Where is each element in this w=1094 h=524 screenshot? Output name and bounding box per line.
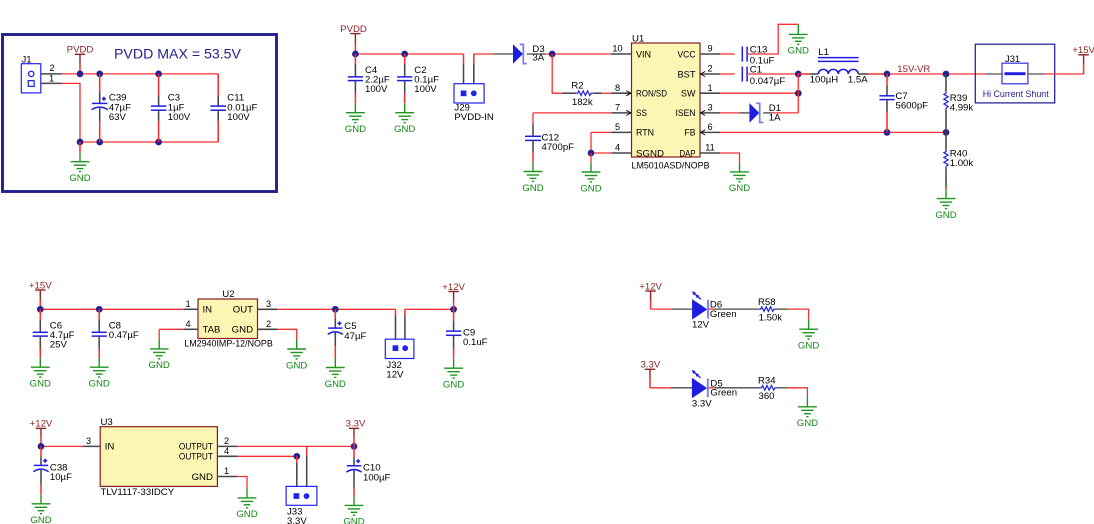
ground xyxy=(345,496,364,515)
inductor L1 xyxy=(798,58,887,74)
junction xyxy=(155,139,162,146)
wire D5 cathode xyxy=(709,387,715,389)
svg-text:LM2940IMP-12/NOPB: LM2940IMP-12/NOPB xyxy=(184,338,272,349)
wire BST to C1 xyxy=(720,73,735,75)
svg-text:PVDD: PVDD xyxy=(340,24,367,35)
svg-text:+12V: +12V xyxy=(639,281,662,292)
svg-text:GND: GND xyxy=(580,183,601,194)
svg-text:3.3V: 3.3V xyxy=(641,360,661,371)
ground (VCC decoupling) xyxy=(797,23,799,26)
power flag +15V (U2 input) xyxy=(29,280,52,309)
svg-text:3.3V: 3.3V xyxy=(692,398,712,409)
svg-text:3: 3 xyxy=(707,103,712,113)
svg-text:Green: Green xyxy=(710,309,737,320)
ground xyxy=(326,358,345,377)
svg-text:PVDD: PVDD xyxy=(67,45,94,56)
svg-text:47µF: 47µF xyxy=(344,331,366,342)
svg-text:GND: GND xyxy=(236,509,257,520)
junction xyxy=(155,71,162,78)
junction xyxy=(549,51,556,58)
ground xyxy=(937,189,956,208)
wire +12V rail right xyxy=(405,308,454,310)
pin 8 RON/SD of U1 xyxy=(612,92,632,94)
pin 2 BST of U1 xyxy=(700,73,720,75)
junction xyxy=(943,71,950,78)
wire J1 pin1 to ground rail xyxy=(62,83,80,142)
svg-text:U1: U1 xyxy=(632,33,644,44)
svg-text:4700pF: 4700pF xyxy=(542,142,575,153)
wire SS net xyxy=(533,112,612,114)
pin 1 IN of U2 xyxy=(184,308,199,310)
svg-text:GND: GND xyxy=(192,472,213,483)
wire U2 GND pin to ground xyxy=(277,329,297,339)
resistor R34 xyxy=(760,386,776,391)
junction xyxy=(77,71,84,78)
svg-text:360: 360 xyxy=(759,391,775,402)
pin 4 OUTPUT of U3 xyxy=(217,455,237,457)
svg-text:GND: GND xyxy=(788,46,809,57)
ground xyxy=(90,358,109,377)
wire +12V to U3 xyxy=(41,445,84,447)
wire 3.3V to D5 xyxy=(650,387,671,389)
svg-text:SGND: SGND xyxy=(636,148,664,159)
svg-text:100V: 100V xyxy=(227,112,250,123)
svg-text:1: 1 xyxy=(224,466,229,476)
voltage regulator U3 TLV1117 body xyxy=(100,427,217,487)
svg-text:GND: GND xyxy=(522,183,543,194)
pin 2 of J1 xyxy=(41,73,62,75)
junction xyxy=(96,71,103,78)
wire FB net xyxy=(720,131,946,133)
wire ISEN xyxy=(720,112,739,114)
pin 1 of J1 xyxy=(41,82,62,84)
svg-text:100V: 100V xyxy=(168,112,191,123)
wire D1 to SW node xyxy=(772,112,798,114)
LED D5 xyxy=(692,370,708,398)
diode D1 xyxy=(749,103,763,123)
svg-text:4.99k: 4.99k xyxy=(950,103,974,114)
wire to R34 xyxy=(714,387,760,389)
LED D6 xyxy=(692,291,708,319)
svg-text:GND: GND xyxy=(345,124,366,135)
svg-text:PVDD MAX = 53.5V: PVDD MAX = 53.5V xyxy=(114,47,242,63)
wire D3 anode lead xyxy=(493,53,513,55)
svg-text:SW: SW xyxy=(681,89,696,100)
pin 6 FB of U1 xyxy=(700,131,720,133)
diode D3 xyxy=(513,44,527,64)
svg-text:GND: GND xyxy=(69,173,90,184)
connector J31 Hi Current Shunt xyxy=(975,44,1054,103)
wire to R58 xyxy=(715,308,760,310)
junction xyxy=(37,306,44,313)
connector J1 xyxy=(21,64,41,93)
svg-text:5: 5 xyxy=(615,122,620,132)
ground xyxy=(71,152,90,171)
svg-text:4: 4 xyxy=(615,143,620,153)
svg-text:TLV1117-33IDCY: TLV1117-33IDCY xyxy=(101,487,175,498)
wire SW xyxy=(720,92,798,94)
wire D3 to VIN xyxy=(546,53,612,55)
wire DAP to ground xyxy=(720,153,740,163)
svg-text:SS: SS xyxy=(636,108,647,119)
svg-text:GND: GND xyxy=(149,360,170,371)
pin 4 SGND of U1 xyxy=(612,152,632,154)
svg-text:1: 1 xyxy=(185,299,190,309)
wire 15V-VR rail xyxy=(887,73,986,75)
op-amp U1 LM5010 regulator body xyxy=(632,43,701,157)
junction xyxy=(38,443,45,450)
wire D6 anode lead xyxy=(671,308,692,310)
pin 11 DAP of U1 xyxy=(700,152,720,154)
wire RTN net xyxy=(591,131,612,133)
svg-text:1: 1 xyxy=(49,74,54,84)
wire D1 anode lead xyxy=(739,112,749,114)
svg-text:+15V: +15V xyxy=(29,280,52,291)
svg-text:TAB: TAB xyxy=(203,325,221,336)
power flag PVDD (regulator) xyxy=(340,24,367,54)
svg-text:9: 9 xyxy=(707,44,712,54)
svg-text:2: 2 xyxy=(266,319,271,329)
svg-text:+12V: +12V xyxy=(442,282,465,293)
capacitor C39 xyxy=(92,74,108,142)
border frame of PVDD input block xyxy=(3,35,277,192)
svg-text:10: 10 xyxy=(612,44,622,54)
svg-text:R2: R2 xyxy=(571,81,583,92)
svg-text:0.1uF: 0.1uF xyxy=(463,337,488,348)
junction xyxy=(450,306,457,313)
svg-text:1.5A: 1.5A xyxy=(848,74,868,85)
svg-text:FB: FB xyxy=(685,128,696,139)
svg-text:J31: J31 xyxy=(1005,53,1020,64)
wire to R2 xyxy=(552,54,562,93)
ground xyxy=(32,495,51,514)
resistor R58 xyxy=(759,307,775,312)
svg-text:PVDD-IN: PVDD-IN xyxy=(454,112,494,123)
svg-text:2: 2 xyxy=(49,63,54,73)
ground xyxy=(444,359,463,378)
svg-text:DAP: DAP xyxy=(680,148,696,159)
pin 3 IN of U3 xyxy=(84,445,101,447)
junction xyxy=(588,150,595,157)
svg-text:2: 2 xyxy=(224,436,229,446)
ground xyxy=(346,103,365,122)
svg-text:GND: GND xyxy=(798,341,819,352)
svg-text:BST: BST xyxy=(678,69,696,80)
capacitor C10 xyxy=(346,446,361,496)
capacitor C11 xyxy=(210,74,226,142)
pin 2 OUTPUT of U3 xyxy=(217,445,237,447)
svg-text:2: 2 xyxy=(707,64,712,74)
power flag PVDD (input block) xyxy=(67,45,94,74)
svg-text:RON/SD: RON/SD xyxy=(636,89,667,100)
svg-text:Hi Current Shunt: Hi Current Shunt xyxy=(983,89,1049,99)
capacitor C12 xyxy=(525,124,541,162)
svg-text:GND: GND xyxy=(935,210,956,221)
ground xyxy=(582,163,601,182)
capacitor C38 xyxy=(33,446,48,494)
connector J33 xyxy=(286,446,317,505)
junction xyxy=(943,129,950,136)
svg-text:GND: GND xyxy=(286,360,307,371)
power flag +12V (U3 input) xyxy=(30,419,53,447)
svg-text:3.3V: 3.3V xyxy=(287,516,307,524)
wire C1 to SW node xyxy=(747,73,798,75)
wire to ground (input block) xyxy=(79,142,81,152)
svg-text:8: 8 xyxy=(615,83,620,93)
svg-text:Green: Green xyxy=(710,388,737,399)
svg-text:GND: GND xyxy=(232,325,253,336)
svg-text:12V: 12V xyxy=(692,320,710,331)
wire VCC to C13 xyxy=(720,53,735,55)
wire OUTPUT4 net xyxy=(237,455,297,457)
pin 4 TAB of U2 xyxy=(184,328,199,330)
capacitor C6 xyxy=(33,309,48,358)
svg-text:GND: GND xyxy=(394,124,415,135)
wire C13 to ground xyxy=(747,24,798,54)
svg-text:+15V: +15V xyxy=(1072,45,1094,56)
pin 1 SW of U1 xyxy=(700,92,720,94)
svg-text:L1: L1 xyxy=(818,47,829,58)
capacitor C9 xyxy=(446,309,461,358)
svg-text:3.3V: 3.3V xyxy=(346,419,366,430)
pin 3 ISEN of U1 xyxy=(700,112,720,114)
svg-text:GND: GND xyxy=(30,515,51,524)
capacitor C1 xyxy=(742,67,747,82)
svg-text:1A: 1A xyxy=(769,112,781,123)
connector J29 xyxy=(454,54,484,103)
junction xyxy=(77,139,84,146)
svg-text:VIN: VIN xyxy=(636,49,651,60)
ground xyxy=(798,398,817,417)
svg-text:GND: GND xyxy=(89,379,110,390)
wire SW node vertical xyxy=(797,74,799,113)
wire +12V to D6 xyxy=(651,308,672,310)
svg-text:1.00k: 1.00k xyxy=(950,158,974,169)
wire TAB to ground xyxy=(159,328,183,330)
power flag +12V (LED D6) xyxy=(639,281,662,309)
capacitor C13 xyxy=(742,47,747,62)
svg-text:3: 3 xyxy=(266,299,271,309)
svg-text:63V: 63V xyxy=(109,112,127,123)
svg-text:4: 4 xyxy=(185,319,190,329)
voltage regulator U2 LM2940 body xyxy=(198,299,258,339)
svg-text:U3: U3 xyxy=(101,417,113,428)
junction xyxy=(795,90,802,97)
pin 2 GND of U2 xyxy=(258,328,278,330)
svg-text:IN: IN xyxy=(203,305,213,316)
svg-text:+12V: +12V xyxy=(30,419,53,430)
svg-text:100µH: 100µH xyxy=(810,74,839,85)
junction xyxy=(401,51,408,58)
wire R58 lead xyxy=(776,308,788,310)
svg-text:IN: IN xyxy=(105,442,115,453)
wire R2 to RON/SD xyxy=(602,92,612,94)
wire ground rail (input block) xyxy=(80,141,218,143)
wire U3 GND to ground xyxy=(237,477,247,489)
ground xyxy=(150,340,169,359)
wire OUTPUT2 net xyxy=(237,445,354,447)
resistor R40 xyxy=(944,132,948,189)
svg-text:GND: GND xyxy=(797,418,818,429)
junction xyxy=(351,443,358,450)
pin 9 VCC of U1 xyxy=(700,53,720,55)
svg-text:100V: 100V xyxy=(365,84,388,95)
ground xyxy=(395,103,414,122)
svg-text:182k: 182k xyxy=(572,97,593,108)
svg-text:U2: U2 xyxy=(222,289,234,300)
svg-text:OUTPUT: OUTPUT xyxy=(179,452,213,463)
svg-text:J1: J1 xyxy=(22,55,32,66)
svg-text:GND: GND xyxy=(443,380,464,391)
svg-text:100µF: 100µF xyxy=(363,472,391,483)
power flag 3.3V (LED D5) xyxy=(641,360,661,388)
svg-text:LM5010ASD/NOPB: LM5010ASD/NOPB xyxy=(632,161,710,172)
ground xyxy=(799,320,818,339)
power flag 3.3V (U3 output) xyxy=(346,419,366,447)
wire D1 cathode lead xyxy=(763,112,772,114)
power flag +12V (U2 output) xyxy=(442,282,465,310)
svg-text:6: 6 xyxy=(707,122,712,132)
ground xyxy=(238,489,257,508)
ground xyxy=(730,163,749,182)
resistor R39 xyxy=(944,74,948,132)
svg-text:100V: 100V xyxy=(414,84,437,95)
wire +15V rail to U2 xyxy=(40,308,183,310)
wire D5 anode lead xyxy=(671,387,692,389)
svg-text:25V: 25V xyxy=(50,340,68,351)
svg-text:12V: 12V xyxy=(386,369,404,380)
wire SGND to ground xyxy=(590,153,592,163)
svg-text:0.47µF: 0.47µF xyxy=(109,330,139,341)
svg-text:5600pF: 5600pF xyxy=(896,101,929,112)
svg-text:ISEN: ISEN xyxy=(676,108,696,119)
pin 10 VIN of U1 xyxy=(612,53,632,55)
capacitor C5 xyxy=(328,309,343,358)
wire PVDD rail (input block) xyxy=(62,73,218,75)
ground xyxy=(31,358,50,377)
capacitor C2 xyxy=(397,54,412,103)
capacitor C8 xyxy=(92,309,107,358)
pin 3 OUT of U2 xyxy=(258,308,278,310)
wire D6 cathode xyxy=(709,308,715,310)
wire PVDD to J29/D3 xyxy=(355,53,493,55)
wire R34 lead xyxy=(777,387,788,389)
svg-text:GND: GND xyxy=(30,379,51,390)
pin 1 GND of U3 xyxy=(217,476,237,478)
capacitor C7 xyxy=(879,74,894,132)
power flag +15V (output) xyxy=(1072,45,1094,74)
wire RTN to SGND xyxy=(590,132,592,153)
pin 5 RTN of U1 xyxy=(612,131,632,133)
ground xyxy=(524,162,543,181)
junction xyxy=(352,51,359,58)
junction xyxy=(795,71,802,78)
svg-text:VCC: VCC xyxy=(678,49,696,60)
svg-text:10µF: 10µF xyxy=(50,472,72,483)
wire TAB vertical xyxy=(158,329,160,339)
svg-text:7: 7 xyxy=(615,103,620,113)
svg-text:GND: GND xyxy=(729,183,750,194)
wire R34 to ground xyxy=(788,388,808,399)
svg-text:1.50k: 1.50k xyxy=(759,313,783,324)
svg-text:0.047µF: 0.047µF xyxy=(750,76,786,87)
junction xyxy=(293,453,300,460)
junction xyxy=(96,306,103,313)
svg-text:R58: R58 xyxy=(758,297,776,308)
wire +12V rail left xyxy=(277,308,396,310)
junction xyxy=(332,306,339,313)
svg-text:RTN: RTN xyxy=(636,128,654,139)
junction xyxy=(96,139,103,146)
svg-text:4: 4 xyxy=(224,446,229,456)
wire SGND net xyxy=(591,152,612,154)
pin 7 SS of U1 xyxy=(612,112,632,114)
junction xyxy=(884,129,891,136)
wire shunt to +15V xyxy=(1044,73,1084,75)
svg-text:11: 11 xyxy=(705,143,715,153)
ground xyxy=(789,25,808,44)
wire D3 cathode lead xyxy=(527,53,546,55)
capacitor C3 xyxy=(151,74,167,142)
svg-text:3: 3 xyxy=(86,436,91,446)
connector J32 xyxy=(385,309,414,358)
svg-text:GND: GND xyxy=(343,517,364,524)
wire R58 to ground xyxy=(788,309,809,320)
junction xyxy=(884,71,891,78)
resistor R2 xyxy=(563,91,602,96)
ground xyxy=(287,340,306,359)
svg-text:R34: R34 xyxy=(758,375,776,386)
svg-text:OUT: OUT xyxy=(233,305,253,316)
svg-text:GND: GND xyxy=(325,379,346,390)
svg-text:1: 1 xyxy=(707,83,712,93)
wire SS to C12 xyxy=(532,113,534,124)
capacitor C4 xyxy=(348,54,363,103)
